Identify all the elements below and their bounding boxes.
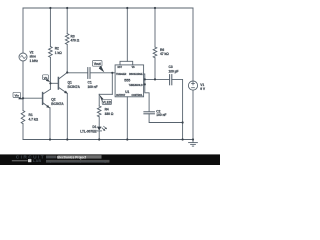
wire R2 column top [49, 8, 51, 47]
svg-text:Vb: Vb [44, 76, 48, 80]
svg-text:47 kΩ: 47 kΩ [160, 52, 169, 56]
svg-text:OUTPUT: OUTPUT [116, 95, 126, 97]
transistor Q2 [43, 89, 51, 108]
svg-text:LAB: LAB [33, 159, 42, 163]
wire left column below V2 [22, 61, 24, 111]
svg-text:1 kHz: 1 kHz [30, 59, 39, 63]
svg-text:Vin: Vin [14, 94, 19, 98]
wire C2 bottom to C3 column [149, 114, 183, 123]
wire R2 bottom to Q1 base node [49, 57, 51, 83]
wire C1 left [67, 72, 88, 74]
wire V1 column top [192, 8, 194, 81]
capacitor C1 [88, 68, 90, 79]
op-amp U1 555 box [115, 65, 144, 97]
node flag VLED [99, 94, 112, 104]
svg-text:470 Ω: 470 Ω [71, 39, 80, 43]
label R1 [29, 113, 39, 121]
label R6 [160, 48, 169, 56]
svg-text:DISCHARGE: DISCHARGE [129, 73, 143, 76]
label V1 [200, 83, 206, 91]
wire C1 right to U1 TRIG [90, 72, 115, 74]
svg-text:LTL-307EE: LTL-307EE [80, 129, 97, 133]
label Q2 [51, 98, 64, 106]
wire top rail [23, 7, 193, 9]
wire R3 column top [66, 8, 68, 34]
wire bottom rail [23, 139, 193, 141]
wire output drop [111, 73, 113, 95]
resistor R6 [153, 47, 157, 58]
resistor R3 [65, 34, 69, 45]
resistor R4 [97, 106, 101, 117]
node junction dots [22, 7, 194, 141]
wire Q2 emitter down [49, 108, 51, 140]
svg-text:CONTROL: CONTROL [131, 95, 143, 97]
svg-text:THRESHOLD: THRESHOLD [129, 85, 143, 87]
footer text [46, 156, 57, 159]
label R3 [71, 34, 80, 42]
wire U1 GND down [126, 97, 128, 140]
svg-text:BC547A: BC547A [68, 85, 81, 89]
wire C3 right down [172, 79, 183, 139]
node flag Vb [43, 75, 51, 82]
wire U1 right pins bracket [144, 74, 150, 112]
wire R6 column top [154, 8, 156, 47]
wire LED column top [98, 94, 100, 106]
label C2 [156, 110, 166, 117]
capacitor C2 [144, 112, 155, 114]
wire left column bottom [22, 124, 24, 140]
U1 pin labels [116, 67, 143, 97]
svg-text:RST: RST [118, 67, 123, 69]
wire R4 to D1 [98, 117, 100, 127]
svg-text:http://circuitlab.com/c/fpdc3h: http://circuitlab.com/c/fpdc3hka7nmae4g [46, 160, 106, 164]
svg-text:Vout: Vout [94, 62, 102, 66]
wire R3 bottom [66, 44, 68, 72]
ground [189, 140, 198, 147]
wire U1 V+ feed [126, 8, 128, 61]
svg-text:330 Ω: 330 Ω [105, 112, 114, 116]
wire DIS/THR node to C3 [145, 78, 170, 80]
wire V1 bottom [192, 90, 194, 139]
resistor R2 [49, 47, 53, 58]
wire Q2 collector up [49, 83, 51, 89]
label C3 [169, 65, 179, 73]
LED D1 [97, 126, 107, 131]
svg-text:VLED: VLED [103, 101, 112, 105]
wire U1 top pins bar [120, 61, 133, 65]
label R4 [105, 108, 114, 116]
voltage source V2 [19, 53, 27, 61]
voltage source V1 [188, 81, 197, 90]
wire Q1 base [50, 82, 58, 84]
svg-text:VS: VS [132, 67, 136, 69]
footer bar [0, 154, 220, 165]
svg-text:9 V: 9 V [200, 87, 206, 91]
label C1 [88, 81, 98, 89]
wire U1 THRS stub [144, 83, 145, 85]
svg-text:BC547A: BC547A [51, 102, 64, 106]
svg-text:4.7 kΩ: 4.7 kΩ [29, 118, 39, 122]
wire output horizontal [99, 93, 112, 95]
wire Q2 base [23, 97, 43, 99]
svg-text:1 kΩ: 1 kΩ [55, 51, 62, 55]
label Q1 [68, 81, 81, 89]
svg-text:555: 555 [124, 79, 130, 83]
node flag Vout [93, 61, 105, 73]
wire D1 to rail [98, 131, 100, 140]
svg-text:100 nF: 100 nF [88, 85, 98, 89]
svg-text:100 µF: 100 µF [169, 69, 179, 73]
node flag Vin [13, 92, 23, 99]
label D1 [80, 125, 97, 133]
svg-text:TRIGGER: TRIGGER [116, 74, 127, 76]
label V2 [30, 51, 39, 63]
capacitor C3 [170, 75, 172, 85]
wire left column V2 top [22, 8, 24, 53]
svg-text:U1: U1 [125, 90, 129, 94]
transistor Q1 [58, 73, 67, 94]
component labels [29, 34, 206, 133]
resistor R1 [21, 111, 25, 124]
wire R6 bottom [154, 58, 156, 80]
label R2 [55, 47, 62, 55]
svg-text:100 nF: 100 nF [156, 113, 166, 117]
wire Q1 emitter down [66, 93, 68, 139]
